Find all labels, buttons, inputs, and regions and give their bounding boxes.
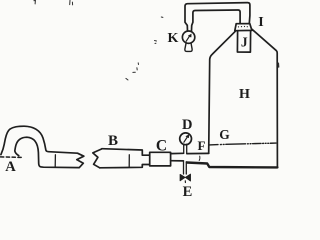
svg-text:E: E: [183, 184, 193, 200]
svg-text:D: D: [182, 117, 192, 133]
tick mark on tube B: [128, 155, 130, 167]
tube B bottom line with neck step: [100, 165, 150, 168]
valve E stem: [184, 161, 187, 174]
scan specks mid: [126, 63, 139, 80]
intake tube A outline: [1, 126, 84, 167]
overhead pipe inner line: [192, 10, 241, 31]
gauge K circle: [182, 31, 194, 43]
pipe C to tee, bottom: [171, 160, 184, 162]
vessel H right shoulder and wall: [252, 29, 277, 167]
intake mouth dashed screen: [1, 156, 22, 159]
tube B top line with neck step: [102, 149, 150, 156]
valve E lower stub: [184, 181, 186, 183]
vessel H left shoulder and wall: [209, 31, 236, 153]
overhead pipe outer line: [185, 3, 250, 31]
pipe C to tee, top: [171, 152, 184, 154]
svg-text:J: J: [241, 35, 248, 50]
svg-text:C: C: [156, 137, 167, 154]
scan speck top left: [34, 0, 36, 4]
gauge K neck: [185, 43, 192, 51]
tick mark on tube A: [54, 155, 56, 167]
tube B broken-end zigzag: [93, 149, 102, 168]
pipe bottom into vessel floor: [187, 163, 278, 168]
valve E bowtie: [180, 174, 190, 181]
ground joint collar: [235, 24, 252, 31]
gauge D stem: [184, 144, 187, 153]
scan speck mid right: [155, 41, 157, 44]
scan tick right wall: [277, 63, 279, 67]
liquid level line G: [209, 143, 276, 145]
scan speck top mid: [70, 0, 73, 5]
svg-text:K: K: [168, 31, 179, 46]
gauge D needle: [184, 137, 188, 143]
pipe tee to vessel, top: [187, 152, 209, 154]
gauge D circle: [180, 133, 192, 145]
svg-text:I: I: [258, 15, 263, 30]
svg-text:G: G: [219, 127, 230, 142]
svg-text:F: F: [198, 138, 206, 153]
collar joint dots: [238, 26, 248, 28]
coupling C box: [150, 152, 171, 166]
scan speck near K: [161, 16, 163, 18]
inner tube J box: [237, 31, 250, 52]
gauge K needle: [186, 36, 190, 42]
svg-text:H: H: [239, 87, 250, 102]
svg-text:A: A: [5, 159, 16, 175]
svg-text:B: B: [108, 133, 118, 149]
scan comma near F: [198, 156, 201, 160]
